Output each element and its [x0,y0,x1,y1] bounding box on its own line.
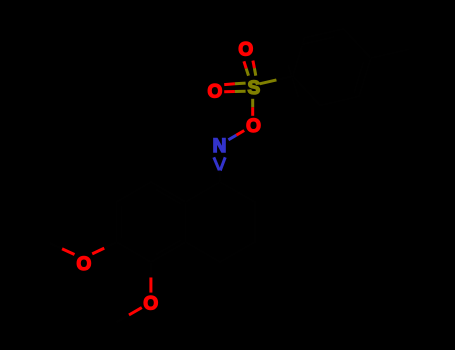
double bond S=O left, lower line [224,90,245,94]
saturated ring (cyclohexene of tetralin, invisible dark bonds) [186,182,255,262]
bond O2-CH3 (lower methoxy, methyl to lower-left) [116,308,142,323]
bond S-O ester, vertical [251,99,254,116]
double bond S=O top, line 2 [253,61,256,76]
svg-text:S: S [247,78,260,99]
bond O1-ring (upper methoxy to ring) [92,242,116,254]
double bond C=N (oxime), converging V [214,157,225,182]
double bond S=O left, upper line [224,83,245,85]
svg-text:O: O [143,293,158,314]
svg-text:N: N [213,136,227,157]
bond O1-CH3 (upper methoxy, methyl to upper-left) [49,243,74,255]
svg-text:O: O [208,82,223,103]
bond O-N (ester O to oxime N) [228,131,244,140]
tolyl para-methyl (invisible dark bond) [371,49,410,58]
bond S-C(tolyl), sulfur half olive [260,76,293,84]
double bond S=O top, line 1 [244,61,249,75]
svg-text:O: O [246,116,261,137]
benzene ring (dimethoxyphenyl, invisible dark bonds) [116,182,185,262]
svg-text:O: O [238,40,253,61]
bond O2-ring (lower methoxy to ring, vertical) [149,262,152,292]
tolyl ring (invisible dark bonds) [288,29,371,106]
svg-text:O: O [77,254,92,275]
